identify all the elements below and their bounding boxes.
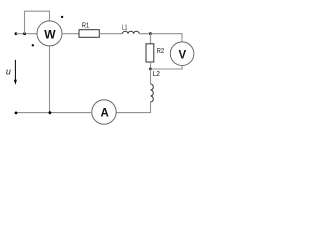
terminal dot bottom-left (15, 112, 18, 115)
polarity dot lower-left of W (32, 44, 34, 46)
terminal dot top-left (15, 32, 18, 35)
wire voltage-coil loop (25, 11, 50, 34)
svg-text:W: W (44, 27, 56, 41)
ammeter A (92, 100, 116, 124)
wire V bottom to node (151, 66, 183, 70)
wire W to R1 (62, 33, 79, 35)
voltmeter V (170, 42, 194, 66)
node junction bottom rail (49, 111, 52, 114)
svg-text:L2: L2 (153, 69, 160, 78)
svg-text:u: u (6, 66, 11, 76)
resistor R1 (79, 30, 99, 38)
wattmeter W (37, 21, 62, 46)
wire R2 to lower node (150, 62, 152, 69)
wire node down to R2 (150, 34, 152, 44)
inductor L1 (122, 31, 139, 33)
node junction after L1 (149, 32, 152, 35)
wire L2 down to bottom rail (116, 102, 150, 113)
wire top-left segment (16, 33, 37, 35)
wire bottom rail A to terminal (16, 112, 92, 114)
svg-text:R2: R2 (157, 46, 165, 55)
wire L1 to node (139, 33, 150, 35)
node junction below R2 (149, 68, 152, 71)
svg-text:V: V (178, 50, 186, 62)
inductor L2 (151, 84, 154, 102)
svg-text:R1: R1 (82, 21, 89, 30)
svg-text:A: A (101, 108, 109, 120)
wire W coil down to bottom rail (49, 46, 51, 113)
svg-text:L1: L1 (122, 24, 127, 31)
polarity dot upper-right of W (61, 16, 63, 18)
wire R1 to L1 (99, 33, 122, 35)
arrow u direction (14, 60, 16, 80)
node junction voltage-coil tap (23, 32, 26, 35)
wire node to top-right corner down to V (151, 34, 183, 42)
wire node to L2 (150, 69, 152, 84)
resistor R2 (146, 44, 154, 62)
